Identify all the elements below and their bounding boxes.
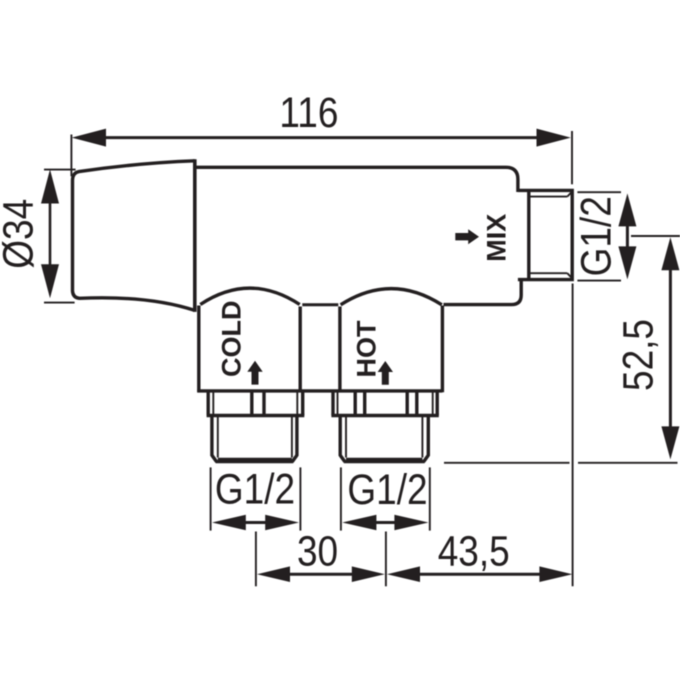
dimension 52,5 bottom extension line left part — [444, 462, 570, 464]
dimension D34 line — [49, 201, 52, 266]
dimension D34 top extension line — [44, 169, 76, 171]
dimension D34 bottom arrowhead — [41, 264, 59, 298]
dimension 30 right arrowhead — [352, 566, 385, 582]
dimension 116 line — [104, 136, 538, 139]
cold collar facet left — [250, 392, 253, 415]
hot collar facet 1 — [354, 392, 357, 415]
cold collar facet right — [262, 392, 265, 415]
hot thread left outer — [339, 417, 342, 456]
mix nipple thread root top — [530, 196, 568, 198]
hot G1/2 left extension line — [340, 467, 342, 530]
dimension 116 right arrowhead — [537, 129, 571, 147]
hot thread bottom line — [344, 460, 425, 463]
svg-text:52,5: 52,5 — [615, 319, 662, 391]
hot thread right outer — [427, 417, 430, 456]
cold thread left root — [217, 417, 219, 458]
cold thread left outer — [210, 417, 213, 456]
svg-text:G1/2: G1/2 — [215, 466, 295, 513]
mix nipple shoulder — [527, 190, 530, 279]
hot collar left inner thin — [337, 392, 339, 415]
cold G1/2 arrow line — [244, 521, 267, 524]
mix nipple chamfer bottom — [567, 273, 571, 278]
hot collar right outer — [436, 392, 439, 415]
svg-text:Ø34: Ø34 — [0, 199, 42, 269]
mix G1/2 arrow line — [626, 224, 629, 248]
hot thread root bottom line — [346, 458, 422, 461]
svg-text:116: 116 — [279, 89, 338, 136]
hot collar right inner thin — [432, 392, 434, 415]
dimension 43,5 right extension line — [572, 284, 574, 587]
svg-text:MIX: MIX — [482, 214, 512, 262]
dimension 30 right extension line — [385, 532, 387, 587]
dimension 52,5 bottom extension line right part — [578, 462, 678, 464]
cold port arc — [200, 288, 299, 304]
cold G1/2 right extension line — [299, 467, 301, 530]
dimension 30 left extension line — [255, 532, 257, 587]
dimension D34 top arrowhead — [41, 169, 59, 203]
cold thread left chamfer — [212, 455, 217, 461]
cold collar left outer — [206, 392, 209, 415]
svg-text:HOT: HOT — [351, 320, 381, 378]
hot port left edge — [338, 307, 341, 393]
dimension 52,5 line — [669, 268, 672, 428]
dimension D34 bottom extension line — [44, 302, 75, 304]
hot thread right chamfer — [424, 455, 429, 461]
ports bottom line — [197, 389, 442, 392]
cold G1/2 left extension line — [210, 467, 212, 530]
hot collar facet 2 — [363, 392, 366, 415]
dimension 30 line — [288, 573, 354, 576]
hot collar left outer — [331, 392, 334, 415]
hot thread left root — [345, 417, 347, 458]
cold collar right inner thin — [296, 392, 298, 415]
hot G1/2 arrow line — [373, 521, 398, 524]
mix nipple thread root bottom — [530, 272, 568, 274]
cold collar right outer — [301, 392, 304, 415]
cold thread root bottom line — [218, 458, 292, 461]
svg-text:G1/2: G1/2 — [347, 466, 427, 513]
cold port right edge — [299, 307, 302, 393]
cold thread bottom line — [216, 460, 294, 463]
svg-text:30: 30 — [297, 528, 338, 575]
dimension 116 left arrowhead — [72, 129, 106, 147]
dimension 52,5 top arrowhead — [661, 237, 679, 270]
mix nipple chamfer top — [567, 192, 571, 197]
dimension 116 right extension line — [571, 131, 573, 184]
body bottom-right edge with fillet — [444, 279, 522, 305]
cold thread right root — [291, 417, 293, 458]
mix nipple outer rectangle — [518, 190, 572, 279]
dimension 52,5 bottom arrowhead — [661, 426, 679, 459]
mix flow arrow — [455, 229, 479, 244]
cold G1/2 right arrowhead — [265, 515, 299, 531]
hot collar facet 4 — [415, 392, 418, 415]
cold G1/2 left arrowhead — [212, 515, 246, 531]
dimension 43,5 right arrowhead — [539, 566, 572, 582]
svg-text:43,5: 43,5 — [438, 528, 510, 575]
knob right edge — [193, 159, 197, 312]
hot G1/2 left arrowhead — [342, 515, 376, 531]
svg-text:G1/2: G1/2 — [573, 196, 620, 276]
cold thread right chamfer — [292, 455, 297, 461]
dimension 43,5 left arrowhead — [387, 566, 420, 582]
cold flow arrow — [247, 361, 262, 385]
cold collar bottom line — [207, 414, 305, 417]
cold thread right outer — [295, 417, 298, 456]
dimension 43,5 line — [418, 573, 541, 576]
mix G1/2 top arrowhead — [618, 193, 636, 226]
cold collar left inner thin — [212, 392, 214, 415]
dimension 116 left extension line — [70, 135, 72, 177]
mix G1/2 bottom extension line — [577, 280, 621, 282]
mix G1/2 top extension line — [577, 191, 621, 193]
hot thread right root — [421, 417, 423, 458]
hot G1/2 right arrowhead — [394, 515, 428, 531]
web top line between ports — [302, 303, 338, 306]
hot port right edge — [441, 306, 444, 393]
cold port left edge — [197, 306, 200, 393]
body top edge with top-right corner — [196, 167, 518, 192]
svg-text:COLD: COLD — [217, 301, 247, 378]
mix G1/2 bottom arrowhead — [618, 246, 636, 279]
dimension 52,5 top extension line — [631, 235, 680, 237]
hot collar facet 3 — [406, 392, 409, 415]
hot flow arrow — [378, 361, 393, 385]
hot G1/2 right extension line — [429, 467, 431, 530]
dimension 30 left arrowhead — [257, 566, 290, 582]
hot collar bottom line — [331, 414, 438, 417]
hot thread left chamfer — [340, 455, 345, 461]
knob outline — [73, 161, 195, 311]
hot port arc — [341, 289, 442, 305]
